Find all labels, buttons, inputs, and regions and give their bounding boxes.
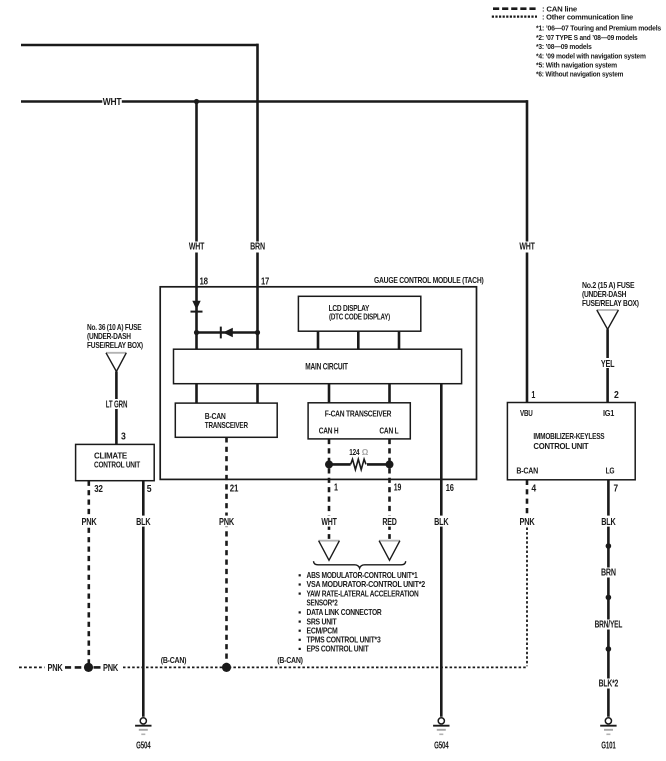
svg-text:1: 1 (531, 390, 535, 401)
svg-text:No. 36 (10 A) FUSE: No. 36 (10 A) FUSE (87, 323, 142, 332)
svg-text:1: 1 (334, 483, 338, 494)
svg-text:CAN H: CAN H (319, 426, 339, 435)
svg-text:4: 4 (531, 484, 536, 495)
svg-text:BRN: BRN (250, 242, 265, 253)
svg-text:VBU: VBU (520, 409, 533, 418)
svg-text:PNK: PNK (520, 517, 536, 528)
svg-text:(B-CAN): (B-CAN) (277, 656, 303, 665)
svg-text:*6: Without navigation system: *6: Without navigation system (536, 70, 623, 79)
svg-text:WHT: WHT (103, 97, 122, 108)
svg-text:BRN/YEL: BRN/YEL (595, 619, 623, 630)
svg-text:G504: G504 (434, 741, 449, 752)
svg-text:(UNDER-DASH: (UNDER-DASH (87, 332, 131, 341)
svg-text:FUSE/RELAY BOX): FUSE/RELAY BOX) (87, 341, 143, 350)
svg-text:PNK: PNK (48, 663, 64, 674)
svg-text:32: 32 (94, 484, 103, 495)
svg-text:19: 19 (394, 483, 402, 494)
svg-text:*5: With navigation system: *5: With navigation system (536, 61, 617, 70)
svg-text:MAIN CIRCUIT: MAIN CIRCUIT (305, 362, 348, 372)
svg-text:*1: ’06—07 Touring and Premium: *1: ’06—07 Touring and Premium models (536, 24, 661, 33)
svg-text:TRANSCEIVER: TRANSCEIVER (205, 421, 248, 430)
svg-text:No.2 (15 A) FUSE: No.2 (15 A) FUSE (582, 281, 635, 290)
svg-text:YEL: YEL (601, 359, 615, 370)
svg-text:CLIMATE: CLIMATE (94, 451, 128, 460)
svg-text:17: 17 (261, 276, 270, 287)
svg-text:SENSOR*2: SENSOR*2 (307, 599, 339, 608)
svg-text:: Other communication line: : Other communication line (542, 12, 633, 21)
svg-text:BLK: BLK (434, 517, 449, 528)
svg-text:7: 7 (614, 484, 619, 495)
svg-text:YAW RATE-LATERAL ACCELERATION: YAW RATE-LATERAL ACCELERATION (307, 589, 419, 598)
svg-text:PNK: PNK (103, 663, 119, 674)
svg-text:ECM/PCM: ECM/PCM (307, 626, 338, 635)
svg-text:VSA MODURATOR-CONTROL UNIT*2: VSA MODURATOR-CONTROL UNIT*2 (307, 580, 426, 589)
svg-text:CONTROL UNIT: CONTROL UNIT (94, 460, 140, 469)
svg-text:BLK: BLK (601, 517, 616, 528)
svg-text:*3: ’08—09 models: *3: ’08—09 models (536, 42, 592, 51)
svg-text:PNK: PNK (82, 517, 98, 528)
svg-text:124: 124 (349, 448, 360, 457)
svg-text:SRS UNIT: SRS UNIT (307, 617, 337, 626)
svg-text:16: 16 (446, 483, 454, 494)
svg-text:CAN L: CAN L (379, 426, 398, 435)
svg-text:B-CAN: B-CAN (516, 467, 538, 476)
svg-text:IMMOBILIZER-KEYLESS: IMMOBILIZER-KEYLESS (533, 432, 605, 441)
svg-text:LG: LG (606, 467, 615, 476)
svg-text:FUSE/RELAY BOX): FUSE/RELAY BOX) (582, 299, 639, 308)
svg-text:PNK: PNK (219, 517, 235, 528)
svg-text:(UNDER-DASH: (UNDER-DASH (582, 290, 626, 299)
svg-text:21: 21 (230, 484, 239, 495)
svg-text:B-CAN: B-CAN (205, 412, 226, 421)
svg-text:(DTC CODE DISPLAY): (DTC CODE DISPLAY) (329, 313, 390, 322)
svg-text:F-CAN TRANSCEIVER: F-CAN TRANSCEIVER (325, 409, 392, 418)
svg-text:TPMS CONTROL UNIT*3: TPMS CONTROL UNIT*3 (307, 636, 382, 645)
svg-text:WHT: WHT (321, 517, 336, 528)
svg-text:Ω: Ω (362, 448, 369, 457)
svg-text:BLK: BLK (136, 517, 151, 528)
svg-text:5: 5 (147, 484, 152, 495)
svg-text:3: 3 (121, 432, 126, 443)
svg-text:EPS CONTROL UNIT: EPS CONTROL UNIT (307, 645, 369, 654)
svg-text:BRN: BRN (601, 568, 616, 579)
svg-text:*4: ’09 model with navigation: *4: ’09 model with navigation system (536, 51, 646, 60)
svg-text:18: 18 (200, 276, 209, 287)
svg-text:G504: G504 (136, 741, 151, 752)
svg-text:2: 2 (614, 390, 619, 401)
svg-text:WHT: WHT (519, 242, 534, 253)
svg-text:GAUGE CONTROL MODULE (TACH): GAUGE CONTROL MODULE (TACH) (374, 276, 484, 285)
svg-text:LT GRN: LT GRN (106, 400, 128, 411)
svg-text:ABS MODULATOR-CONTROL UNIT*1: ABS MODULATOR-CONTROL UNIT*1 (307, 571, 419, 580)
svg-text:WHT: WHT (189, 242, 204, 253)
svg-text:IG1: IG1 (603, 409, 615, 418)
svg-text:G101: G101 (601, 741, 616, 752)
svg-text:CONTROL UNIT: CONTROL UNIT (533, 442, 588, 451)
svg-text:DATA LINK CONNECTOR: DATA LINK CONNECTOR (307, 608, 382, 617)
svg-text:(B-CAN): (B-CAN) (161, 656, 187, 665)
svg-text:*2: ’07 TYPE S and ’08—09 mode: *2: ’07 TYPE S and ’08—09 models (536, 33, 638, 42)
svg-text:BLK*2: BLK*2 (599, 678, 619, 689)
svg-text:RED: RED (382, 517, 396, 528)
